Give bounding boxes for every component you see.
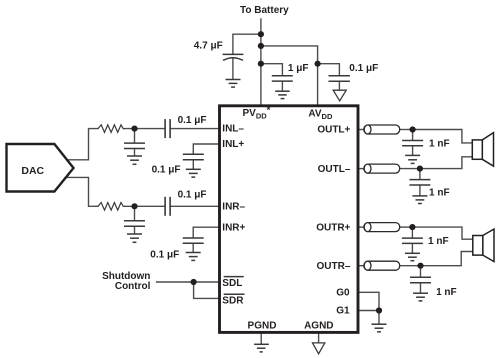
svg-text:INR+: INR+ [222,222,245,233]
svg-text:1 μF: 1 μF [288,63,309,74]
svg-text:To Battery: To Battery [240,5,289,16]
svg-text:0.1 μF: 0.1 μF [178,190,207,201]
svg-text:Control: Control [115,281,151,292]
svg-text:OUTL–: OUTL– [318,164,351,175]
svg-text:PGND: PGND [248,320,277,331]
svg-text:OUTR+: OUTR+ [316,222,350,233]
svg-text:INL–: INL– [222,124,244,135]
svg-text:OUTL+: OUTL+ [317,125,350,136]
svg-text:SDR: SDR [222,295,244,306]
svg-text:DAC: DAC [21,165,44,177]
svg-text:1 nF: 1 nF [428,236,449,247]
svg-text:INR–: INR– [222,202,245,213]
svg-text:OUTR–: OUTR– [316,261,350,272]
svg-text:0.1 μF: 0.1 μF [178,115,207,126]
svg-text:1 nF: 1 nF [429,139,450,150]
svg-text:G1: G1 [336,306,350,317]
svg-text:G0: G0 [336,288,350,299]
svg-text:1 nF: 1 nF [429,187,450,198]
svg-text:AGND: AGND [304,320,333,331]
svg-text:1 nF: 1 nF [436,287,457,298]
svg-text:0.1 μF: 0.1 μF [152,165,181,176]
svg-text:0.1 μF: 0.1 μF [150,249,179,260]
svg-text:4.7 μF: 4.7 μF [194,40,223,51]
svg-text:0.1 μF: 0.1 μF [349,63,378,74]
svg-text:SDL: SDL [222,278,242,289]
svg-text:INL+: INL+ [222,139,244,150]
